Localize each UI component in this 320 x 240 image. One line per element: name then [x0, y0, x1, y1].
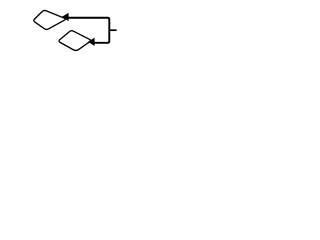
arrowhead into D2 [88, 38, 95, 46]
wire loop: top horizontal, right vertical, bottom horizontal [68, 18, 109, 43]
arrowhead into D1 [62, 13, 69, 21]
wire stub right [109, 29, 116, 31]
node decision diamond D1 [34, 10, 66, 29]
node decision diamond D2 [59, 31, 91, 51]
